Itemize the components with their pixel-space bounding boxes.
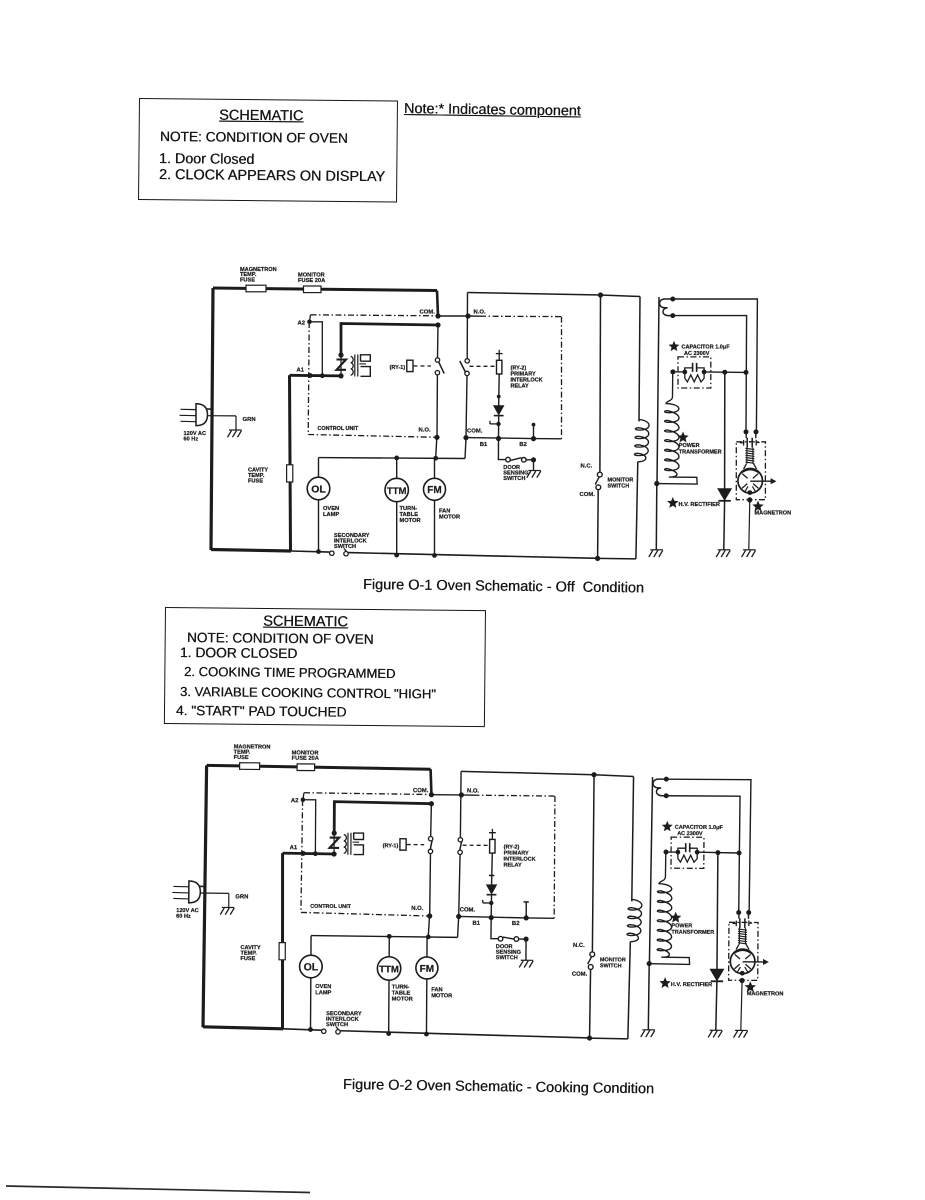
node TTM top (O-2) <box>387 934 392 939</box>
node door switch right (O-1) <box>531 457 536 462</box>
relay coil RY-2 (O-1) <box>497 360 502 374</box>
transformer T2 filament winding (O-1) <box>659 299 672 316</box>
wire B1-B2 link (O-1) <box>466 438 534 439</box>
svg-text:A1: A1 <box>297 367 305 373</box>
node above B1 (O-2) <box>489 901 493 905</box>
wire HV rectifier to ground (O-2) <box>716 981 717 1030</box>
monitor switch blade (O-2) <box>588 957 592 964</box>
svg-text:FUSE 20A: FUSE 20A <box>292 756 319 762</box>
wire COM to N.O. link (O-1) <box>438 315 468 317</box>
wire monitor loop top (O-2) <box>461 771 594 774</box>
wire filament lead lower (O-2) <box>666 796 741 913</box>
wire load bus (O-2) <box>311 936 458 938</box>
node N.O. upper (O-1) <box>465 313 470 318</box>
svg-text:H.V. RECTIFIER: H.V. RECTIFIER <box>671 982 712 988</box>
svg-text:SWITCH: SWITCH <box>600 963 622 969</box>
page bottom scan line <box>6 1186 310 1193</box>
wire GRN lead (O-2) <box>200 892 229 894</box>
monitor switch blade (O-1) <box>595 477 599 484</box>
note box O-2 line 2 <box>184 664 396 681</box>
AC plug P1 (O-2) <box>173 885 189 887</box>
header note <box>404 101 581 119</box>
wire capacitor to HV rectifier (O-2) <box>697 851 739 854</box>
svg-text:COM.: COM. <box>467 429 483 435</box>
magnetron enclosure box (O-1) <box>736 442 765 500</box>
wire N.O. riser (O-1) <box>466 293 468 317</box>
label CAPACITOR 1.0uF AC 2300V (O-1) <box>670 342 678 350</box>
ground (door switch) (O-2) <box>521 959 533 961</box>
inductor monitor loop coil (O-1) <box>634 420 649 462</box>
link RY-2 dashed (O-2) <box>463 844 489 846</box>
node monitor switch top (O-2) <box>591 772 596 777</box>
svg-text:B1: B1 <box>472 921 480 927</box>
motor FM fan motor (O-2) <box>426 937 428 957</box>
fuse F2 monitor fuse 20A (O-1) <box>304 286 322 293</box>
ground (magnetron) (O-2) <box>735 1029 747 1031</box>
fuse F1 magnetron temp fuse (O-1) <box>246 285 266 292</box>
wire B1 to door switch (O-2) <box>491 918 499 939</box>
svg-text:OVEN: OVEN <box>315 984 331 990</box>
ground (HV rectifier) (O-2) <box>710 1029 722 1031</box>
svg-text:GRN: GRN <box>235 894 248 900</box>
node filament cap right (O-1) <box>754 429 759 434</box>
node A1 (O-1) <box>308 373 313 378</box>
door sensing switch left contact (O-1) <box>506 457 511 462</box>
wire top feed (O-1) <box>213 288 437 291</box>
note box O-1 line 2 <box>159 167 385 185</box>
node A1 junction with A2 branch (O-2) <box>313 851 318 856</box>
wire COM drop (O-1) <box>437 291 438 317</box>
node B2 (O-1) <box>531 436 536 441</box>
wire HV rectifier to ground (O-1) <box>723 501 726 550</box>
magnetron V1 (O-2) <box>730 949 755 974</box>
diode D2 H.V. rectifier (O-1) <box>718 489 731 500</box>
door sensing switch right contact (O-1) <box>522 458 527 463</box>
node TTM bottom (O-2) <box>386 1031 391 1036</box>
node N.O. lower (O-1) <box>434 435 439 440</box>
wire HV ground rail (O-1) <box>657 297 659 484</box>
svg-text:GRN: GRN <box>243 417 256 423</box>
wire diode to B1 (O-2) <box>490 895 492 918</box>
svg-text:CONTROL UNIT: CONTROL UNIT <box>310 904 351 910</box>
svg-text:TRANSFORMER: TRANSFORMER <box>671 930 714 936</box>
svg-text:COM.: COM. <box>413 788 429 794</box>
contact RY-2 blade (closed) (O-2) <box>460 841 462 850</box>
svg-text:N.O.: N.O. <box>474 310 486 316</box>
label POWER TRANSFORMER (O-2) <box>671 913 680 922</box>
relay coil RY-2 (O-2) <box>490 839 495 853</box>
svg-text:B2: B2 <box>519 442 527 448</box>
contact RY-1 lower (O-2) <box>428 849 432 853</box>
label H.V. RECTIFIER (O-2) <box>661 978 670 987</box>
magnetron antenna arrow (O-1) <box>750 480 771 482</box>
node OL bottom (O-1) <box>316 549 321 554</box>
resistor R1 bleeder (O-1) <box>685 372 704 382</box>
wire monitor switch lower lead (O-2) <box>590 969 591 1038</box>
svg-text:N.O.: N.O. <box>411 906 424 912</box>
svg-text:FM: FM <box>427 485 441 496</box>
svg-text:A1: A1 <box>290 845 298 851</box>
fuse F3 cavity temp fuse (O-1) <box>287 465 293 482</box>
svg-text:H.V. RECTIFIER: H.V. RECTIFIER <box>679 502 720 508</box>
svg-text:SWITCH: SWITCH <box>334 544 356 550</box>
wire A1 thick (O-2) <box>283 852 335 856</box>
wire contact2 lower lead (O-2) <box>459 854 460 916</box>
node filament top (O-1) <box>670 297 675 302</box>
wire HV ground rail (O-2) <box>649 777 652 964</box>
wire filament lead upper (O-2) <box>666 779 751 912</box>
wire contact2 upper lead (O-2) <box>459 795 461 838</box>
wire GRN lead (O-1) <box>207 415 236 417</box>
tick near B1 (O-2) <box>483 902 491 904</box>
magnetron filament choke (O-2) <box>738 929 747 930</box>
wire contact2 lower lead (O-1) <box>466 376 467 438</box>
svg-text:60 Hz: 60 Hz <box>184 437 199 443</box>
contact RY-2 upper (O-1) <box>465 359 469 363</box>
wire filament lead upper (O-1) <box>673 299 758 432</box>
note box O-1 title SCHEMATIC <box>219 108 303 125</box>
svg-text:A2: A2 <box>298 320 306 326</box>
wire N.O. riser (O-2) <box>460 771 462 795</box>
svg-text:CAPACITOR 1.0μF: CAPACITOR 1.0μF <box>675 825 724 831</box>
contact RY-2 lower (O-1) <box>465 371 469 375</box>
wire control unit left boundary (O-2) <box>301 800 303 913</box>
svg-text:N.O.: N.O. <box>467 788 480 794</box>
wire load bus to COM stub (O-1) <box>465 438 466 459</box>
note box O-2 line 4 <box>176 703 347 720</box>
node filament cap left (O-1) <box>744 429 749 434</box>
wire bottom bus (O-2) <box>283 1029 322 1030</box>
wire FM bottom lead (O-2) <box>425 979 427 1034</box>
node N.O. lower (O-2) <box>427 913 432 918</box>
node filament bottom (O-2) <box>664 793 669 798</box>
wire top feed (O-2) <box>207 765 431 769</box>
wire to door switch ground (O-1) <box>533 460 535 471</box>
note box O-2 line 3 <box>180 684 436 701</box>
svg-text:OL: OL <box>304 961 319 973</box>
contact RY-1 blade (open) (O-1) <box>439 362 445 374</box>
wire relay T1 feed thick (O-1) <box>341 324 438 356</box>
wire load bus to N.O. stub (O-2) <box>428 916 429 937</box>
diode D2 H.V. rectifier (O-2) <box>710 969 723 980</box>
magnetron V1 (O-1) <box>738 469 763 494</box>
wire TTM bottom lead (O-1) <box>396 502 398 556</box>
svg-text:LAMP: LAMP <box>315 990 331 996</box>
wire monitor switch upper lead (O-2) <box>592 775 594 952</box>
node B1 (O-1) <box>496 436 501 441</box>
door sensing switch blade (closed) (O-2) <box>503 937 514 939</box>
svg-text:CAPACITOR 1.0μF: CAPACITOR 1.0μF <box>682 345 731 351</box>
node capacitor inner left (O-1) <box>682 370 687 375</box>
node A1 junction with A2 branch (O-1) <box>320 373 325 378</box>
note box O-1 frame <box>138 98 398 202</box>
fuse F3 cavity temp fuse (O-2) <box>279 943 285 960</box>
wire filament lead lower (O-1) <box>673 316 747 432</box>
note box O-2 title SCHEMATIC <box>263 613 348 630</box>
secondary interlock switch left contact (O-1) <box>330 551 334 555</box>
node FM bottom (O-2) <box>424 1032 429 1037</box>
svg-text:B1: B1 <box>480 442 488 448</box>
wire bottom bus thick (O-2) <box>203 1027 283 1029</box>
svg-text:FUSE: FUSE <box>248 479 263 485</box>
node T1 primary bottom (O-1) <box>338 373 343 378</box>
node T1 feed at COM line (O-2) <box>429 801 434 806</box>
wire monitor loop right upper (O-1) <box>639 297 640 422</box>
contact RY-1 upper (O-2) <box>428 836 432 840</box>
node capacitor inner left (O-2) <box>675 850 680 855</box>
contact RY-1 upper (O-1) <box>435 358 439 362</box>
svg-text:FUSE: FUSE <box>240 956 255 962</box>
svg-text:OL: OL <box>311 483 326 495</box>
node T1 primary bottom (O-2) <box>331 851 336 856</box>
node T1 primary top (O-1) <box>338 352 343 357</box>
wire left vertical feed (O-1) <box>211 288 213 550</box>
transformer T1 secondary winding (O-2) <box>354 833 364 839</box>
caption Figure O-2 <box>343 1077 654 1097</box>
wire monitor loop bottom (O-1) <box>598 557 636 560</box>
wire control unit bottom boundary (O-1) <box>308 435 437 438</box>
capacitor C1 (O-2) <box>666 851 678 853</box>
caption Figure O-1 <box>363 577 644 596</box>
wire COM contact upper lead (O-1) <box>437 325 440 358</box>
contact RY-2 upper (O-2) <box>458 838 462 842</box>
node filament cap right (O-2) <box>746 910 751 915</box>
node filament top (O-2) <box>664 777 669 782</box>
capacitor C1 box (O-2) <box>671 837 704 868</box>
node FM bottom (O-1) <box>432 553 437 558</box>
node bottom bus / monitor (O-2) <box>587 1035 592 1040</box>
magnetron antenna arrow (O-2) <box>743 961 764 963</box>
svg-text:(RY-1): (RY-1) <box>383 843 399 849</box>
schematic O-2 group <box>171 744 784 1042</box>
wire RY-2 to diode (O-1) <box>498 374 501 406</box>
link RY-1 dashed (O-2) <box>407 844 424 846</box>
contact RY-2 lower (O-2) <box>458 850 462 854</box>
ground (GRN) (O-2) <box>222 906 234 908</box>
wire A2 branch (O-2) <box>303 800 316 854</box>
wire relay T1 feed thick (O-2) <box>334 802 431 834</box>
node COM lower (O-1) <box>463 435 468 440</box>
svg-text:N.C.: N.C. <box>581 463 593 469</box>
note box O-1 line 1 <box>159 151 255 168</box>
svg-text:SWITCH: SWITCH <box>503 476 525 482</box>
node filament lead lower tap (O-1) <box>744 370 749 375</box>
transformer T2 HV secondary winding (O-1) <box>657 374 697 484</box>
wire A1 thick (O-1) <box>290 374 342 377</box>
lamp OL oven lamp (O-2) <box>310 936 312 956</box>
secondary interlock switch left contact (O-2) <box>322 1029 326 1033</box>
svg-text:POWER: POWER <box>671 923 692 929</box>
contact monitor switch N.C. (O-1) <box>597 472 602 477</box>
transformer T2 filament winding (O-2) <box>653 779 666 796</box>
svg-text:POWER: POWER <box>679 443 700 449</box>
link RY-2 dashed (O-1) <box>470 365 497 367</box>
transformer T1 secondary winding (O-1) <box>361 355 371 361</box>
svg-text:COM.: COM. <box>420 310 436 316</box>
svg-text:AC 2300V: AC 2300V <box>684 351 710 357</box>
contact RY-1 lower (O-1) <box>435 371 439 375</box>
node above B1 (O-1) <box>496 422 500 426</box>
relay coil RY-2 top tick (O-2) <box>489 832 496 834</box>
svg-text:FUSE: FUSE <box>240 277 255 283</box>
node OL bottom (O-2) <box>308 1027 313 1032</box>
wire to door switch ground (O-2) <box>525 939 527 960</box>
diode D1 (O-2) <box>487 885 497 894</box>
label CAPACITOR 1.0uF AC 2300V (O-2) <box>663 822 671 830</box>
node door switch right (O-2) <box>523 936 528 941</box>
contact RY-2 blade (open) (O-1) <box>460 361 466 373</box>
magnetron filament feedthrough capacitors (O-1) <box>745 432 747 438</box>
fuse F2 monitor fuse 20A (O-2) <box>297 764 315 771</box>
door sensing switch blade (open) (O-1) <box>510 458 521 461</box>
magnetron filament feedthrough capacitors (O-2) <box>738 912 740 918</box>
svg-text:AC 2300V: AC 2300V <box>677 831 703 837</box>
node COM upper (O-1) <box>435 313 440 318</box>
svg-text:OVEN: OVEN <box>323 506 339 512</box>
svg-text:MOTOR: MOTOR <box>431 993 452 999</box>
node TTM top (O-1) <box>394 456 399 461</box>
wire HV rectifier lead (O-2) <box>716 853 719 970</box>
svg-text:COM.: COM. <box>580 492 596 498</box>
wire capacitor to HV rectifier (O-1) <box>704 371 746 374</box>
node B1 (O-2) <box>489 915 494 920</box>
node COM upper (O-2) <box>429 792 434 797</box>
node B2 (O-2) <box>524 915 529 920</box>
wire RY-2 loop dash-dot top (O-1) <box>468 315 480 317</box>
node filament lead lower tap (O-2) <box>737 850 742 855</box>
svg-text:FM: FM <box>420 964 435 975</box>
ground (transformer) (O-2) <box>642 1029 654 1031</box>
svg-text:A2: A2 <box>291 798 299 804</box>
svg-text:LAMP: LAMP <box>323 512 339 518</box>
wire OL bottom lead (O-1) <box>318 500 320 552</box>
node COM lower (O-2) <box>456 914 461 919</box>
wire HV rectifier lead (O-1) <box>724 372 726 489</box>
node A2 (O-2) <box>301 797 306 802</box>
svg-text:COM.: COM. <box>572 972 588 978</box>
node monitor switch top (O-1) <box>598 292 603 297</box>
wire bottom bus (O-1) <box>291 551 330 552</box>
diode D1 (O-1) <box>494 406 504 415</box>
wire monitor switch upper lead (O-1) <box>599 295 602 472</box>
svg-text:MOTOR: MOTOR <box>392 996 413 1002</box>
wire diode to B1 (O-1) <box>498 416 500 439</box>
wire magnetron to ground (O-1) <box>749 500 750 550</box>
wire RY-2 loop dash-dot right (O-1) <box>561 317 563 439</box>
wire monitor loop top (O-1) <box>468 293 601 296</box>
node capacitor inner right (O-2) <box>695 850 700 855</box>
wire COM to N.O. link (O-2) <box>431 794 461 796</box>
wire bottom bus thick (O-1) <box>211 550 291 552</box>
wire monitor switch lower lead (O-1) <box>597 490 600 559</box>
relay coil RY-1 (O-1) <box>407 360 413 371</box>
magnetron enclosure box (O-2) <box>729 922 758 980</box>
note box O-1 line NOTE <box>160 129 348 146</box>
lamp OL oven lamp (O-1) <box>318 458 320 478</box>
wire monitor loop bottom (O-2) <box>590 1037 628 1040</box>
svg-text:MAGNETRON: MAGNETRON <box>747 991 784 997</box>
secondary interlock switch right contact (O-2) <box>336 1030 340 1034</box>
node filament bottom (O-1) <box>670 313 675 318</box>
ground (door switch) (O-1) <box>528 470 541 472</box>
svg-text:RELAY: RELAY <box>511 383 529 389</box>
wire A2 dash-dot (O-1) <box>311 315 437 316</box>
inductor monitor loop coil (O-2) <box>627 899 642 941</box>
label H.V. RECTIFIER (O-1) <box>668 498 677 506</box>
svg-text:N.O.: N.O. <box>419 427 431 433</box>
wire OL bottom lead (O-2) <box>309 978 311 1030</box>
node FM top (O-1) <box>433 456 438 461</box>
wire RY-2 loop dash-dot top (O-2) <box>461 794 473 796</box>
capacitor C1 box (O-1) <box>678 357 711 388</box>
contact RY-1 blade (closed) (O-2) <box>430 840 432 849</box>
contact monitor switch N.C. (O-2) <box>590 952 595 957</box>
node FM top (O-2) <box>426 934 431 939</box>
svg-text:MOTOR: MOTOR <box>439 515 460 521</box>
wire B2 pin (O-2) <box>525 902 527 918</box>
svg-text:SWITCH: SWITCH <box>496 955 518 961</box>
motor TTM turntable motor (O-1) <box>396 458 398 478</box>
wire COM drop (O-2) <box>430 769 431 795</box>
ground (magnetron) (O-1) <box>743 549 756 551</box>
wire monitor loop right lower (O-2) <box>628 941 630 1038</box>
wire load bus to N.O. stub (O-1) <box>436 437 437 458</box>
node bottom bus / monitor (O-1) <box>595 556 600 561</box>
note box O-2 frame <box>164 607 486 727</box>
node HV rail (O-2) <box>647 961 652 966</box>
door sensing switch left contact (O-2) <box>498 936 503 941</box>
note box O-2 line NOTE <box>187 630 374 647</box>
node capacitor inner right (O-1) <box>702 370 707 375</box>
svg-text:B2: B2 <box>512 921 520 927</box>
node N.O. upper (O-2) <box>459 792 464 797</box>
node A1 (O-2) <box>301 851 306 856</box>
contact monitor switch COM (O-2) <box>588 965 593 970</box>
svg-text:TRANSFORMER: TRANSFORMER <box>679 449 722 455</box>
relay coil RY-1 (O-2) <box>400 839 406 850</box>
node filament cap left (O-2) <box>736 910 741 915</box>
wire control unit left boundary (O-1) <box>308 322 309 435</box>
node capacitor left (O-1) <box>670 369 675 374</box>
node magnetron cathode (O-2) <box>740 971 745 976</box>
node A2 (O-1) <box>307 320 312 325</box>
wire A2 branch (O-1) <box>310 322 323 376</box>
wire B1 to door switch (O-1) <box>498 439 505 460</box>
ground (transformer) (O-1) <box>650 549 663 551</box>
wire door switch to B2 leg (O-2) <box>519 938 526 940</box>
wire COM contact upper lead (O-2) <box>430 804 433 837</box>
transformer T2 HV secondary winding (O-2) <box>650 854 691 964</box>
wire monitor loop right lower (O-1) <box>636 462 638 559</box>
svg-text:SWITCH: SWITCH <box>608 484 630 490</box>
svg-text:TTM: TTM <box>379 964 399 975</box>
wire load bus to COM stub (O-2) <box>458 917 459 938</box>
wire monitor loop right upper (O-2) <box>632 776 634 901</box>
node HV rail (O-1) <box>654 481 659 486</box>
wire A2 dash-dot (O-2) <box>304 793 430 795</box>
wire RY-2 loop dash-dot right (O-2) <box>553 796 556 918</box>
label MAGNETRON (O-2) <box>746 982 755 991</box>
wire B1-B2 link (O-2) <box>459 916 527 917</box>
wire B2 pin (O-1) <box>533 425 535 439</box>
ground (GRN) (O-1) <box>229 429 242 431</box>
relay coil RY-2 top tick (O-1) <box>496 353 503 355</box>
wire mid vertical thick (O-1) <box>290 375 291 550</box>
wire left vertical feed (O-2) <box>203 765 207 1027</box>
resistor R1 bleeder (O-2) <box>678 852 697 862</box>
wire TTM bottom lead (O-2) <box>388 980 390 1034</box>
transformer T1 primary winding (O-2) <box>333 833 335 854</box>
